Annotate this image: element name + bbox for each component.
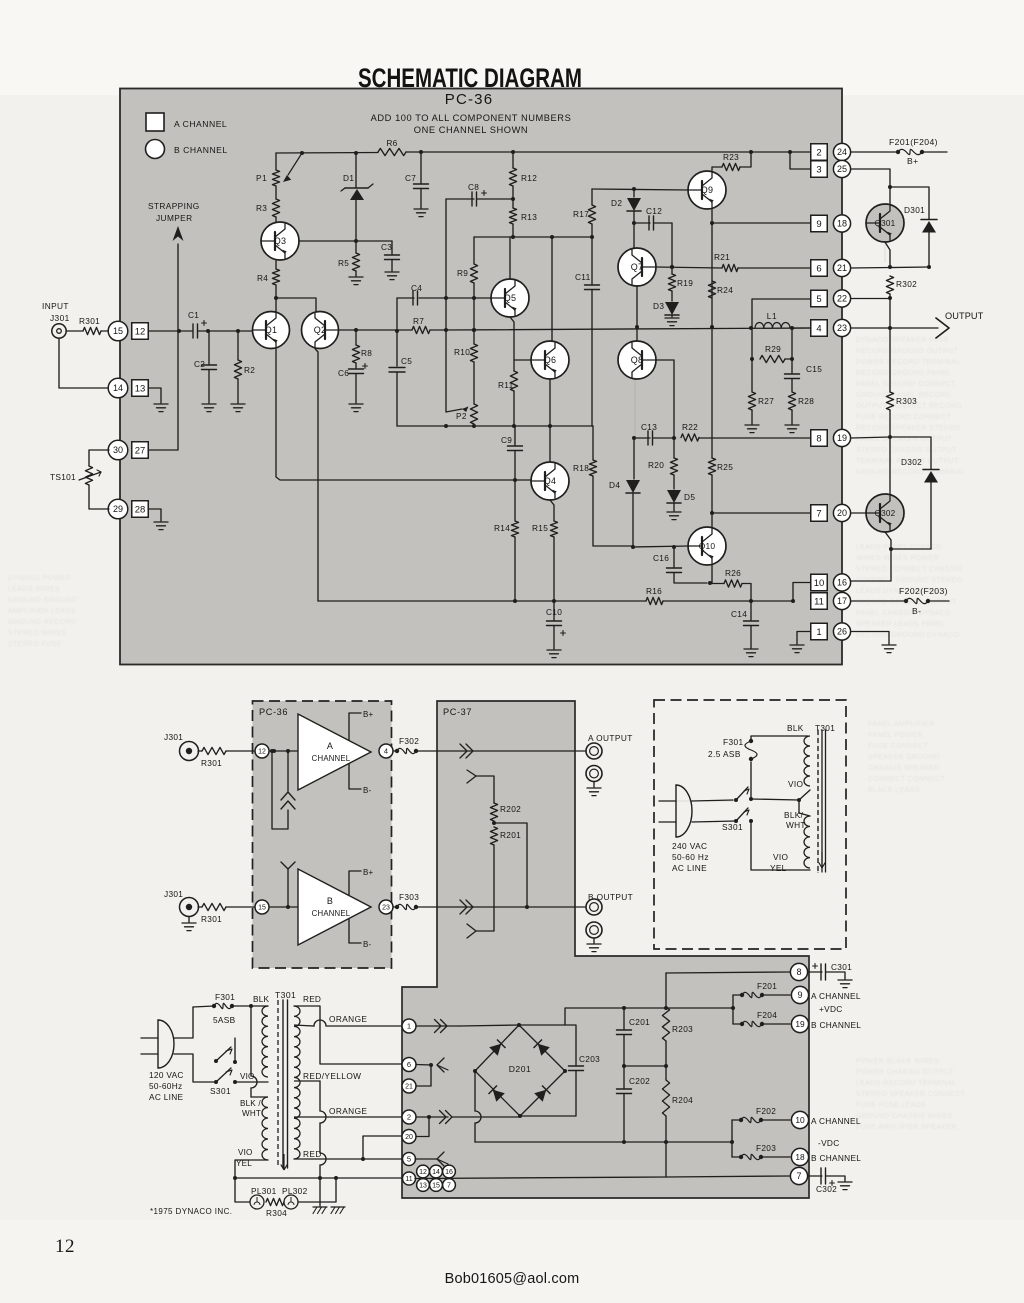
svg-text:1: 1 <box>407 1022 411 1031</box>
svg-text:R21: R21 <box>714 252 730 262</box>
svg-text:P2: P2 <box>456 411 467 421</box>
svg-text:OUTPUT: OUTPUT <box>945 311 984 321</box>
svg-text:R6: R6 <box>386 138 397 148</box>
svg-text:WHT: WHT <box>242 1109 261 1118</box>
svg-text:Q8: Q8 <box>631 355 643 365</box>
svg-text:STEREO SPEAKER CONNECT: STEREO SPEAKER CONNECT <box>856 1091 965 1098</box>
svg-text:120 VAC: 120 VAC <box>149 1070 184 1080</box>
svg-text:GROUND CHASSIS WIRES: GROUND CHASSIS WIRES <box>856 1113 953 1120</box>
svg-text:PC-36: PC-36 <box>445 91 494 108</box>
svg-text:F302: F302 <box>399 736 419 746</box>
svg-text:C5: C5 <box>401 356 412 366</box>
svg-text:VIO: VIO <box>773 852 788 862</box>
svg-text:RECORD GROUND PANEL: RECORD GROUND PANEL <box>856 370 951 377</box>
svg-text:12: 12 <box>55 1236 75 1257</box>
svg-text:7: 7 <box>816 508 821 519</box>
svg-text:R14: R14 <box>494 523 510 533</box>
svg-text:R20: R20 <box>648 460 664 470</box>
svg-text:FUSE AMPLIFIER SPEAKER: FUSE AMPLIFIER SPEAKER <box>856 1124 957 1131</box>
svg-text:WHT: WHT <box>786 820 806 830</box>
svg-text:PANEL POWER: PANEL POWER <box>868 732 923 739</box>
svg-text:24: 24 <box>837 147 847 157</box>
svg-text:R29: R29 <box>765 344 781 354</box>
svg-text:PANEL SPEAKER OUTPUT: PANEL SPEAKER OUTPUT <box>856 436 952 443</box>
svg-text:11: 11 <box>814 596 824 607</box>
svg-text:BLK/: BLK/ <box>784 810 804 820</box>
svg-text:F301: F301 <box>215 992 235 1002</box>
svg-text:C13: C13 <box>641 422 657 432</box>
svg-text:TERMINAL POWER OUTPUT: TERMINAL POWER OUTPUT <box>856 458 959 465</box>
svg-text:18: 18 <box>795 1152 805 1162</box>
svg-text:3: 3 <box>816 164 821 175</box>
svg-text:B CHANNEL: B CHANNEL <box>811 1020 861 1030</box>
svg-text:R10: R10 <box>454 347 470 357</box>
svg-text:TS101: TS101 <box>50 472 76 482</box>
svg-text:C11: C11 <box>575 272 591 282</box>
svg-text:CHASSIS SPEAKER: CHASSIS SPEAKER <box>868 765 940 772</box>
svg-text:T301: T301 <box>275 990 296 1000</box>
svg-text:R204: R204 <box>672 1095 693 1105</box>
svg-text:F202: F202 <box>756 1106 776 1116</box>
svg-text:R3: R3 <box>256 203 267 213</box>
svg-text:D1: D1 <box>343 173 354 183</box>
svg-text:8: 8 <box>816 433 821 444</box>
svg-text:50-60Hz: 50-60Hz <box>149 1081 182 1091</box>
svg-text:J301: J301 <box>50 313 70 323</box>
svg-text:R28: R28 <box>798 396 814 406</box>
svg-text:BLK: BLK <box>253 994 270 1004</box>
svg-text:6: 6 <box>407 1060 411 1069</box>
svg-text:240 VAC: 240 VAC <box>672 841 707 851</box>
svg-text:+VDC: +VDC <box>819 1004 843 1014</box>
svg-text:*1975 DYNACO INC.: *1975 DYNACO INC. <box>150 1207 232 1216</box>
svg-text:CONNECT GROUND STEREO: CONNECT GROUND STEREO <box>856 577 963 584</box>
svg-text:PANEL GROUND CONNECT: PANEL GROUND CONNECT <box>856 381 956 388</box>
svg-text:Q2: Q2 <box>314 325 326 335</box>
svg-text:Q301: Q301 <box>875 219 896 228</box>
svg-text:C1: C1 <box>188 310 199 320</box>
svg-text:PANEL CHASSIS DYNACO: PANEL CHASSIS DYNACO <box>856 610 951 617</box>
svg-text:RECORD GROUND DYNACO: RECORD GROUND DYNACO <box>856 632 959 639</box>
svg-text:R301: R301 <box>201 758 222 768</box>
svg-text:C3: C3 <box>381 242 392 252</box>
svg-text:R18: R18 <box>573 463 589 473</box>
svg-text:B+: B+ <box>363 710 374 719</box>
svg-text:C202: C202 <box>629 1076 650 1086</box>
svg-text:22: 22 <box>837 294 847 304</box>
svg-text:R201: R201 <box>500 830 521 840</box>
svg-text:D3: D3 <box>653 301 664 311</box>
svg-text:C301: C301 <box>831 962 852 972</box>
svg-text:PL301: PL301 <box>251 1186 277 1196</box>
svg-text:14: 14 <box>432 1169 440 1176</box>
svg-text:R4: R4 <box>257 273 268 283</box>
svg-text:LEADS RECORD TERMINAL: LEADS RECORD TERMINAL <box>856 1080 957 1087</box>
svg-text:R11: R11 <box>498 380 514 390</box>
svg-text:J301: J301 <box>164 889 183 899</box>
svg-text:Q1: Q1 <box>265 325 277 335</box>
svg-text:C16: C16 <box>653 553 669 563</box>
svg-text:13: 13 <box>135 383 146 394</box>
svg-text:BLK /: BLK / <box>240 1099 261 1108</box>
svg-text:F301: F301 <box>723 737 744 747</box>
svg-text:15: 15 <box>113 326 123 336</box>
svg-text:LEADS PANEL DYNACO: LEADS PANEL DYNACO <box>856 544 942 551</box>
svg-text:19: 19 <box>795 1019 805 1029</box>
svg-text:B: B <box>327 896 333 906</box>
svg-text:C12: C12 <box>646 206 662 216</box>
svg-text:WIRES WIRES POWER: WIRES WIRES POWER <box>856 555 939 562</box>
svg-text:S301: S301 <box>722 822 743 832</box>
svg-text:R13: R13 <box>521 212 537 222</box>
svg-text:C8: C8 <box>468 182 479 192</box>
svg-text:GROUND GROUND: GROUND GROUND <box>8 597 77 604</box>
svg-text:50-60 Hz: 50-60 Hz <box>672 852 709 862</box>
svg-text:C203: C203 <box>579 1054 600 1064</box>
svg-text:11: 11 <box>405 1176 412 1183</box>
svg-text:2: 2 <box>816 147 821 158</box>
svg-text:29: 29 <box>113 504 123 514</box>
svg-text:16: 16 <box>445 1169 453 1176</box>
svg-text:AC LINE: AC LINE <box>149 1092 184 1102</box>
svg-text:C9: C9 <box>501 435 512 445</box>
svg-text:D201: D201 <box>509 1064 532 1074</box>
svg-text:POWER BLACK WIRES: POWER BLACK WIRES <box>856 1058 939 1065</box>
svg-text:RECORD GROUND OUTPUT: RECORD GROUND OUTPUT <box>856 348 958 355</box>
svg-text:R202: R202 <box>500 804 521 814</box>
svg-text:ADD 100 TO ALL COMPONENT NUMBE: ADD 100 TO ALL COMPONENT NUMBERS <box>371 113 572 123</box>
svg-text:R16: R16 <box>646 586 662 596</box>
svg-text:R304: R304 <box>266 1208 287 1218</box>
svg-text:F201(F204): F201(F204) <box>889 137 938 147</box>
svg-text:12: 12 <box>419 1169 427 1176</box>
svg-text:R23: R23 <box>723 152 739 162</box>
svg-text:10: 10 <box>814 578 825 589</box>
svg-text:15: 15 <box>258 905 266 912</box>
svg-text:R15: R15 <box>532 523 548 533</box>
svg-text:F204: F204 <box>757 1010 777 1020</box>
svg-text:CHANNEL: CHANNEL <box>312 754 351 763</box>
svg-text:R302: R302 <box>896 279 917 289</box>
svg-text:R9: R9 <box>457 268 468 278</box>
svg-text:R27: R27 <box>758 396 774 406</box>
svg-text:5ASB: 5ASB <box>213 1015 236 1025</box>
svg-text:Q9: Q9 <box>701 185 713 195</box>
svg-text:F303: F303 <box>399 892 419 902</box>
svg-text:GROUND PANEL RECORD: GROUND PANEL RECORD <box>856 392 951 399</box>
svg-text:6: 6 <box>816 263 821 274</box>
svg-text:23: 23 <box>382 905 390 912</box>
svg-text:15: 15 <box>432 1183 440 1190</box>
svg-text:PANEL AMPLIFIER: PANEL AMPLIFIER <box>868 721 935 728</box>
svg-text:C7: C7 <box>405 173 416 183</box>
svg-text:9: 9 <box>797 990 802 1000</box>
svg-text:R17: R17 <box>573 209 589 219</box>
svg-text:30: 30 <box>113 445 123 455</box>
svg-text:INPUT: INPUT <box>42 301 69 311</box>
svg-text:25: 25 <box>837 164 847 174</box>
svg-text:R25: R25 <box>717 462 733 472</box>
svg-text:C4: C4 <box>411 283 422 293</box>
svg-text:RED: RED <box>303 1149 322 1159</box>
svg-text:AC LINE: AC LINE <box>672 863 707 873</box>
svg-text:R301: R301 <box>201 914 222 924</box>
svg-text:10: 10 <box>795 1115 805 1125</box>
svg-text:27: 27 <box>135 445 146 456</box>
svg-text:C302: C302 <box>816 1184 837 1194</box>
svg-text:LEADS DYNACO WIRES: LEADS DYNACO WIRES <box>856 588 943 595</box>
svg-text:26: 26 <box>837 627 847 637</box>
svg-text:D5: D5 <box>684 492 695 502</box>
svg-text:STEREO CONNECT CHASSIS: STEREO CONNECT CHASSIS <box>856 566 963 573</box>
svg-text:RED/YELLOW: RED/YELLOW <box>303 1071 361 1081</box>
svg-text:Q5: Q5 <box>504 293 516 303</box>
svg-text:21: 21 <box>405 1084 413 1091</box>
svg-text:Q10: Q10 <box>699 541 716 551</box>
svg-text:12: 12 <box>135 326 146 337</box>
svg-text:STEREO CHASSIS OUTPUT: STEREO CHASSIS OUTPUT <box>856 447 957 454</box>
svg-text:GROUND RECORD TERMINAL: GROUND RECORD TERMINAL <box>856 469 965 476</box>
svg-text:A CHANNEL: A CHANNEL <box>174 119 227 129</box>
svg-text:YEL: YEL <box>770 863 787 873</box>
svg-text:Bob01605@aol.com: Bob01605@aol.com <box>445 1271 580 1287</box>
svg-text:Q6: Q6 <box>544 355 556 365</box>
svg-text:C6: C6 <box>338 368 349 378</box>
svg-text:POWER CHASSIS OUTPUT: POWER CHASSIS OUTPUT <box>856 1069 954 1076</box>
svg-text:R301: R301 <box>79 316 100 326</box>
svg-text:7: 7 <box>796 1171 801 1181</box>
svg-text:STEREO FUSE: STEREO FUSE <box>8 641 62 648</box>
svg-text:R7: R7 <box>413 316 424 326</box>
svg-text:DYNACO POWER: DYNACO POWER <box>8 575 71 582</box>
svg-text:D4: D4 <box>609 480 620 490</box>
svg-text:DYNACO SPEAKER FUSE: DYNACO SPEAKER FUSE <box>856 337 949 344</box>
svg-text:POWER RECORD TERMINAL: POWER RECORD TERMINAL <box>856 359 960 366</box>
svg-text:B+: B+ <box>363 868 374 877</box>
svg-text:R26: R26 <box>725 568 741 578</box>
svg-text:LEADS WIRES: LEADS WIRES <box>8 586 60 593</box>
svg-text:5: 5 <box>816 294 821 305</box>
svg-text:R24: R24 <box>717 285 733 295</box>
svg-text:C201: C201 <box>629 1017 650 1027</box>
svg-text:R5: R5 <box>338 258 349 268</box>
svg-text:14: 14 <box>113 383 123 393</box>
svg-text:STEREO WIRES: STEREO WIRES <box>8 630 66 637</box>
svg-text:ONE CHANNEL SHOWN: ONE CHANNEL SHOWN <box>414 125 528 135</box>
svg-text:PC-36: PC-36 <box>259 707 288 717</box>
svg-text:5: 5 <box>407 1155 411 1164</box>
svg-text:OUTPUT CONNECT RECORD: OUTPUT CONNECT RECORD <box>856 403 962 410</box>
svg-text:B CHANNEL: B CHANNEL <box>174 145 228 155</box>
svg-text:Q7: Q7 <box>631 262 643 272</box>
svg-text:VIO: VIO <box>240 1072 255 1081</box>
svg-text:J301: J301 <box>164 732 183 742</box>
svg-text:A CHANNEL: A CHANNEL <box>811 1116 861 1126</box>
svg-text:GROUND RECORD: GROUND RECORD <box>8 619 77 626</box>
svg-text:12: 12 <box>258 749 266 756</box>
svg-text:R19: R19 <box>677 278 693 288</box>
svg-text:R12: R12 <box>521 173 537 183</box>
svg-text:C15: C15 <box>806 364 822 374</box>
svg-text:B CHANNEL: B CHANNEL <box>811 1153 861 1163</box>
svg-text:FUSE RECORD CONNECT: FUSE RECORD CONNECT <box>856 414 951 421</box>
svg-text:A: A <box>327 741 333 751</box>
svg-text:19: 19 <box>837 433 847 443</box>
svg-text:FUSE CONNECT: FUSE CONNECT <box>868 743 928 750</box>
svg-text:4: 4 <box>384 747 388 756</box>
svg-text:STRAPPING: STRAPPING <box>148 201 200 211</box>
svg-text:R8: R8 <box>361 348 372 358</box>
svg-text:FUSE FUSE LEADS: FUSE FUSE LEADS <box>856 1102 926 1109</box>
svg-text:SPEAKER GROUND: SPEAKER GROUND <box>868 754 940 761</box>
svg-text:A CHANNEL: A CHANNEL <box>811 991 861 1001</box>
svg-text:4: 4 <box>816 323 821 334</box>
svg-text:CHANNEL: CHANNEL <box>312 909 351 918</box>
svg-text:Q3: Q3 <box>274 236 286 246</box>
svg-text:23: 23 <box>837 323 847 333</box>
svg-text:CONNECT CONNECT: CONNECT CONNECT <box>868 776 945 783</box>
svg-text:20: 20 <box>837 508 847 518</box>
svg-text:ORANGE: ORANGE <box>329 1014 367 1024</box>
svg-text:28: 28 <box>135 504 146 515</box>
svg-text:AMPLIFIER LEADS: AMPLIFIER LEADS <box>8 608 76 615</box>
svg-text:SCHEMATIC DIAGRAM: SCHEMATIC DIAGRAM <box>358 63 582 93</box>
svg-text:RED: RED <box>303 994 321 1004</box>
svg-text:R22: R22 <box>682 422 698 432</box>
svg-text:D2: D2 <box>611 198 622 208</box>
svg-text:20: 20 <box>405 1134 413 1141</box>
svg-text:Q4: Q4 <box>544 476 556 486</box>
svg-text:R203: R203 <box>672 1024 693 1034</box>
svg-text:S301: S301 <box>210 1086 231 1096</box>
svg-text:13: 13 <box>419 1183 427 1190</box>
svg-text:8: 8 <box>796 967 801 977</box>
svg-text:RECORD SPEAKER STEREO: RECORD SPEAKER STEREO <box>856 425 961 432</box>
svg-text:B-: B- <box>363 786 372 795</box>
svg-text:F203: F203 <box>756 1143 776 1153</box>
svg-text:7: 7 <box>447 1183 451 1190</box>
svg-text:B-: B- <box>363 940 372 949</box>
svg-text:VIO: VIO <box>788 779 803 789</box>
svg-text:C14: C14 <box>731 609 747 619</box>
svg-text:PC-37: PC-37 <box>443 707 472 717</box>
svg-text:L1: L1 <box>767 311 777 321</box>
svg-text:P1: P1 <box>256 173 267 183</box>
svg-text:C2: C2 <box>194 359 205 369</box>
svg-text:9: 9 <box>816 219 821 230</box>
svg-text:-VDC: -VDC <box>818 1138 839 1148</box>
svg-text:21: 21 <box>837 263 847 273</box>
svg-text:1: 1 <box>816 627 821 638</box>
svg-text:2.5 ASB: 2.5 ASB <box>708 749 741 759</box>
svg-text:BLACK LEADS: BLACK LEADS <box>868 787 920 794</box>
svg-text:A OUTPUT: A OUTPUT <box>588 733 633 743</box>
svg-text:F201: F201 <box>757 981 777 991</box>
svg-text:Q302: Q302 <box>875 509 896 518</box>
svg-text:VIO: VIO <box>238 1148 253 1157</box>
svg-text:PL302: PL302 <box>282 1186 308 1196</box>
svg-text:17: 17 <box>837 596 847 606</box>
svg-text:18: 18 <box>837 219 847 229</box>
svg-text:ORANGE: ORANGE <box>329 1106 367 1116</box>
svg-text:2: 2 <box>407 1113 411 1122</box>
svg-text:R2: R2 <box>244 365 255 375</box>
svg-text:D301: D301 <box>904 205 925 215</box>
svg-text:STEREO GROUND OUTPUT: STEREO GROUND OUTPUT <box>856 599 957 606</box>
svg-text:SPEAKER LEADS PANEL: SPEAKER LEADS PANEL <box>856 621 946 628</box>
svg-text:BLK: BLK <box>787 723 804 733</box>
svg-text:JUMPER: JUMPER <box>156 213 193 223</box>
svg-text:16: 16 <box>837 578 847 588</box>
svg-text:B+: B+ <box>907 156 919 166</box>
